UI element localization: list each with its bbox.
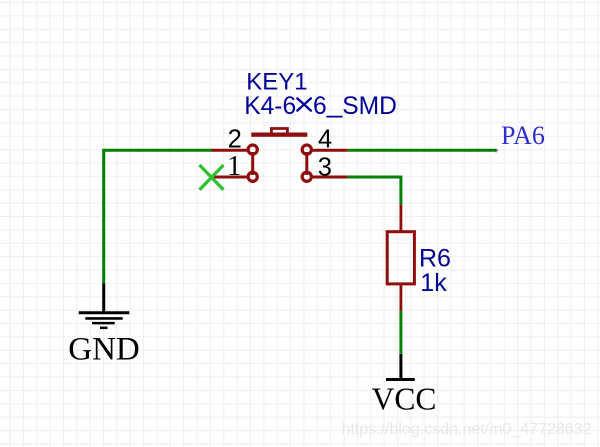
svg-text:KEY1: KEY1	[246, 69, 307, 96]
switch KEY1 button bump	[271, 129, 287, 134]
contact link right	[305, 152, 308, 175]
svg-text:https://blog.csdn.net/m0_47728: https://blog.csdn.net/m0_47728632	[342, 421, 592, 438]
svg-text:2: 2	[228, 126, 242, 154]
wire: resistor to VCC segment	[399, 311, 402, 354]
svg-text:3: 3	[318, 153, 332, 181]
pin 4	[302, 145, 348, 154]
power port GND	[79, 284, 130, 328]
pin 1	[212, 172, 258, 181]
svg-text:6_SMD: 6_SMD	[313, 87, 397, 120]
no-connect X marker on pin 1	[200, 165, 224, 190]
wire: GND net vertical segment	[102, 149, 105, 284]
svg-text:1k: 1k	[420, 269, 447, 297]
pin 3	[302, 172, 348, 181]
switch KEY1 actuator bar	[251, 133, 307, 137]
resistor R6 top lead	[399, 204, 402, 231]
wire: pin3 to resistor segment	[348, 177, 401, 204]
resistor R6 body	[387, 232, 414, 284]
resistor R6 bottom lead	[399, 285, 402, 310]
svg-text:VCC: VCC	[372, 382, 437, 417]
svg-text:1: 1	[227, 151, 241, 182]
power port VCC	[386, 354, 415, 380]
pin 2	[212, 145, 258, 154]
contact link left	[251, 152, 254, 175]
svg-text:PA6: PA6	[501, 121, 545, 150]
svg-text:GND: GND	[68, 332, 140, 368]
svg-text:K4-6: K4-6	[244, 93, 296, 120]
svg-text:4: 4	[318, 126, 332, 154]
wire: GND net horizontal segment	[104, 149, 212, 152]
wire: PA6 net segment	[348, 149, 496, 152]
net label anchor cross	[494, 148, 498, 152]
